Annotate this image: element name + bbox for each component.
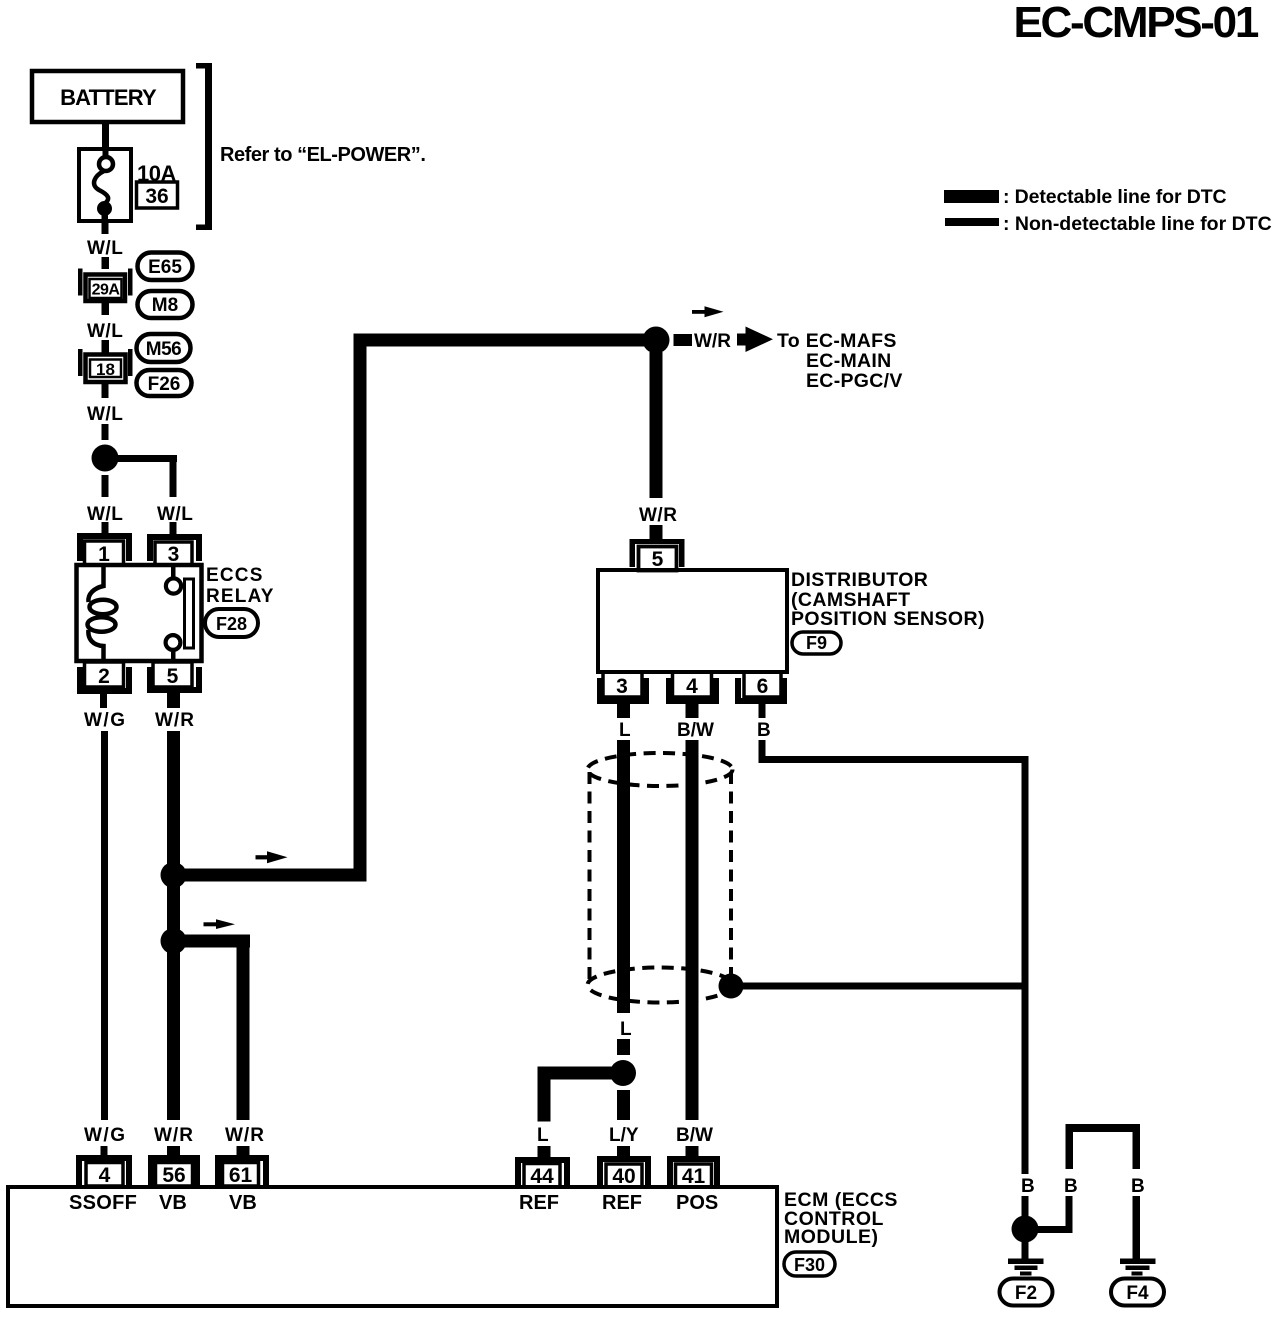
svg-text:: Non-detectable line for DTC: : Non-detectable line for DTC xyxy=(1003,213,1272,235)
svg-text:E65: E65 xyxy=(148,257,182,278)
wire B middle leg to ground junction xyxy=(1036,1196,1073,1233)
wire label B/W xyxy=(677,720,714,741)
wire L distributor pin 3 stub xyxy=(617,704,630,718)
svg-text:29A: 29A xyxy=(92,282,121,299)
svg-text:M8: M8 xyxy=(152,295,178,316)
wire label B right xyxy=(1131,1176,1145,1197)
svg-text:B/W: B/W xyxy=(676,1125,713,1146)
junction node at ground F2 xyxy=(1012,1216,1039,1243)
ECM pin 40 xyxy=(597,1156,651,1188)
svg-text:L: L xyxy=(620,1019,632,1040)
svg-text:18: 18 xyxy=(96,360,115,379)
distributor label xyxy=(791,569,985,630)
wire B bridge between grounds (inverted U) xyxy=(1066,1124,1141,1169)
wire label W/G bottom xyxy=(84,1125,127,1146)
wire label L below shield xyxy=(620,1019,632,1040)
relay pin 2 xyxy=(77,662,132,694)
wire W/L fuse to connector 29A xyxy=(102,222,110,269)
wire W/R junction down to distributor pin 5 xyxy=(650,352,663,498)
relay pin 1 xyxy=(77,533,132,566)
wire shield drain to B line xyxy=(731,983,1025,990)
wire label W/R bottom right xyxy=(225,1125,265,1146)
legend non-detectable line swatch xyxy=(945,218,999,226)
ECM pin name POS xyxy=(676,1192,718,1214)
svg-text:61: 61 xyxy=(229,1164,253,1187)
wire B right leg down to ground F4 xyxy=(1133,1196,1141,1259)
wire W/L connector 29A to connector 18 xyxy=(102,302,110,353)
svg-text:W/R: W/R xyxy=(154,1125,194,1146)
svg-text:6: 6 xyxy=(757,675,769,698)
shield around sensor wires (dashed cylinder) xyxy=(588,753,733,1003)
ECM pin 61 xyxy=(215,1155,269,1187)
svg-text:EC-PGC/V: EC-PGC/V xyxy=(806,370,903,392)
wire L dash above junction xyxy=(617,1039,630,1055)
junction node W/L split xyxy=(92,445,119,472)
distributor pin 5 xyxy=(630,539,685,571)
wire W/R riser up and across to distributor xyxy=(354,334,646,882)
relay pin 3 xyxy=(147,534,202,566)
svg-text:W/L: W/L xyxy=(157,504,193,525)
connector designator F26 xyxy=(137,370,192,396)
svg-text:EC-CMPS-01: EC-CMPS-01 xyxy=(1014,0,1259,47)
svg-text:5: 5 xyxy=(167,665,179,688)
wire label L/Y xyxy=(609,1125,639,1146)
note text refer to EL-POWER xyxy=(220,144,425,166)
svg-text:B: B xyxy=(1131,1176,1145,1197)
wire label W/R xyxy=(155,710,195,731)
connector designator M8 xyxy=(138,291,193,318)
svg-text:36: 36 xyxy=(145,185,168,208)
svg-text:W/L: W/L xyxy=(87,504,123,525)
wire label W/L right xyxy=(157,504,193,525)
relay coil xyxy=(88,565,117,661)
legend non-detectable text xyxy=(1003,213,1272,235)
wire label L above pin 44 xyxy=(537,1125,549,1146)
svg-text:RELAY: RELAY xyxy=(206,586,275,607)
svg-text:L: L xyxy=(619,720,631,741)
wire W/R stub right of junction xyxy=(674,334,693,346)
arrow marker small above W/R xyxy=(692,306,724,317)
connector designator E65 xyxy=(138,253,193,281)
wire label W/L left xyxy=(87,504,123,525)
svg-text:POSITION SENSOR): POSITION SENSOR) xyxy=(791,608,985,630)
ECM pin name REF xyxy=(602,1192,642,1214)
svg-text:F9: F9 xyxy=(806,633,827,653)
distributor camshaft position sensor body xyxy=(598,570,787,672)
ECM pin 44 xyxy=(515,1157,570,1188)
svg-text:L: L xyxy=(537,1125,549,1146)
ECM pin name SSOFF xyxy=(69,1192,137,1214)
ECM pin name VB xyxy=(159,1192,187,1214)
svg-text:M56: M56 xyxy=(146,339,181,360)
wire label B/W bottom xyxy=(676,1125,713,1146)
svg-text:: Detectable line for DTC: : Detectable line for DTC xyxy=(1003,186,1226,208)
wire B into ground junction xyxy=(1022,1196,1029,1217)
wire B pin 6 right and down xyxy=(759,740,1029,1174)
svg-text:56: 56 xyxy=(162,1164,185,1187)
wire W/R branch to ECM pin 61 xyxy=(180,935,250,1121)
connector 29A xyxy=(78,269,133,302)
svg-text:F26: F26 xyxy=(148,374,181,395)
ground symbol F2 xyxy=(1008,1241,1044,1276)
junction node L split to REF pins xyxy=(610,1060,636,1086)
battery xyxy=(32,71,183,122)
wire label W/L xyxy=(87,321,123,342)
connector 18 xyxy=(78,349,133,382)
arrow to EC-MAFS xyxy=(737,327,773,353)
bracket refer to EL-POWER xyxy=(196,63,212,230)
svg-text:2: 2 xyxy=(98,665,110,688)
svg-text:W/R: W/R xyxy=(225,1125,265,1146)
svg-text:44: 44 xyxy=(530,1165,554,1188)
svg-text:4: 4 xyxy=(99,1164,111,1187)
relay armature bar xyxy=(185,579,194,648)
ECM label xyxy=(784,1189,898,1248)
svg-text:40: 40 xyxy=(612,1165,635,1188)
wire stub into relay pin 3 xyxy=(170,522,177,535)
svg-text:REF: REF xyxy=(519,1192,559,1214)
relay U1 ECCS relay body xyxy=(77,565,202,661)
svg-text:W/R: W/R xyxy=(155,710,195,731)
relay designator F28 xyxy=(205,609,258,637)
svg-text:B: B xyxy=(757,720,771,741)
wire W/R branch junction to vertical riser xyxy=(180,869,362,882)
svg-text:B: B xyxy=(1064,1176,1078,1197)
wire L/Y junction down to ECM pin 40 xyxy=(617,1090,630,1120)
wire stub into ECM pin 4 xyxy=(101,1146,108,1157)
ground symbol F4 xyxy=(1120,1259,1156,1276)
wire label B below pin 6 xyxy=(757,720,771,741)
svg-text:W/L: W/L xyxy=(87,404,123,425)
svg-text:POS: POS xyxy=(676,1192,718,1214)
wire label B left xyxy=(1021,1176,1035,1197)
wire label B middle xyxy=(1064,1176,1078,1197)
svg-text:3: 3 xyxy=(616,675,628,698)
wire label L xyxy=(619,720,631,741)
wire B/W down to ECM pin 41 xyxy=(686,740,699,1120)
fuse number 36 xyxy=(137,182,178,208)
svg-text:W/L: W/L xyxy=(87,321,123,342)
svg-text:W/G: W/G xyxy=(84,1125,127,1146)
wire stub into ECM pin 40 xyxy=(617,1146,630,1157)
title EC-CMPS-01 xyxy=(1014,0,1259,47)
junction node shield drain to B xyxy=(719,974,744,999)
svg-text:To EC-MAFS: To EC-MAFS xyxy=(777,330,897,352)
fuse value 10A xyxy=(137,161,176,186)
wire L branch left to ECM pin 44 xyxy=(538,1067,624,1122)
svg-text:BATTERY: BATTERY xyxy=(60,85,157,110)
svg-text:1: 1 xyxy=(98,543,110,566)
relay pin 5 xyxy=(147,662,202,693)
svg-text:4: 4 xyxy=(686,675,698,698)
svg-text:Refer to “EL-POWER”.: Refer to “EL-POWER”. xyxy=(220,144,425,166)
wire W/R relay pin 5 stub xyxy=(167,693,180,708)
ECM pin 56 xyxy=(148,1155,200,1187)
wire label W/R above distributor xyxy=(639,505,677,526)
junction node W/R at top xyxy=(643,327,670,354)
wire label W/R bottom middle xyxy=(154,1125,194,1146)
ground designator F2 xyxy=(1000,1279,1053,1306)
wire W/G down to ECM pin 4 xyxy=(101,731,108,1120)
svg-text:W/G: W/G xyxy=(84,710,127,731)
wire label W/G xyxy=(84,710,127,731)
svg-text:SSOFF: SSOFF xyxy=(69,1192,137,1214)
ECM pin name REF xyxy=(519,1192,559,1214)
distributor pin 3 xyxy=(597,672,649,704)
arrow marker on W/R branch xyxy=(256,851,288,863)
wire W/L connector 18 to junction xyxy=(102,384,109,440)
svg-text:5: 5 xyxy=(652,548,664,571)
relay label ECCS RELAY xyxy=(206,565,275,607)
svg-text:MODULE): MODULE) xyxy=(784,1226,879,1248)
svg-text:F2: F2 xyxy=(1015,1283,1037,1304)
wire branch junction to relay pin 3 xyxy=(112,455,177,497)
legend detectable line swatch xyxy=(944,190,999,203)
svg-text:VB: VB xyxy=(229,1192,257,1214)
svg-text:VB: VB xyxy=(159,1192,187,1214)
wire L down through shield xyxy=(617,740,630,1013)
distributor pin 6 xyxy=(735,672,787,704)
wire stub into distributor pin 5 xyxy=(650,525,663,540)
wire junction to relay pin 1 xyxy=(102,475,109,497)
wire W/G relay pin 2 stub xyxy=(100,694,107,708)
wire stub into ECM pin 56 xyxy=(167,1146,180,1157)
svg-text:ECCS: ECCS xyxy=(206,565,264,586)
svg-text:DISTRIBUTOR: DISTRIBUTOR xyxy=(791,569,928,591)
wire stub into ECM pin 61 xyxy=(237,1146,250,1157)
wire B/W distributor pin 4 stub xyxy=(686,704,699,718)
svg-text:F28: F28 xyxy=(216,614,247,634)
arrow marker on pin 61 branch xyxy=(204,919,236,929)
wire stub into relay pin 1 xyxy=(102,522,109,535)
wire battery to fuse xyxy=(102,120,109,150)
svg-text:3: 3 xyxy=(168,543,180,566)
wire label W/L xyxy=(87,238,123,259)
svg-text:W/R: W/R xyxy=(639,505,677,526)
ECM designator F30 xyxy=(784,1252,835,1276)
wire stub into ECM pin 41 xyxy=(686,1146,699,1157)
ECM ECCS control module body xyxy=(8,1187,777,1306)
svg-text:EC-MAIN: EC-MAIN xyxy=(806,350,892,372)
ECM pin name VB xyxy=(229,1192,257,1214)
wire W/R relay pin 5 down to ECM pin 56 xyxy=(167,731,180,1120)
svg-text:F30: F30 xyxy=(794,1255,825,1275)
relay switch contacts xyxy=(166,565,181,661)
connector designator M56 xyxy=(137,334,191,362)
distributor pin 4 xyxy=(666,672,719,704)
wire B distributor pin 6 stub xyxy=(759,704,766,718)
legend detectable text xyxy=(1003,186,1226,208)
ECM pin 4 xyxy=(76,1155,132,1187)
fuse 10A xyxy=(79,149,131,233)
svg-text:F4: F4 xyxy=(1126,1283,1149,1304)
distributor designator F9 xyxy=(792,632,841,654)
wire label W/R top xyxy=(694,331,731,352)
svg-text:B: B xyxy=(1021,1176,1035,1197)
junction node W/R branch to EC-MAFS xyxy=(161,862,187,888)
svg-text:41: 41 xyxy=(682,1165,706,1188)
wire stub into ECM pin 44 xyxy=(538,1146,551,1157)
ECM pin 41 xyxy=(667,1156,720,1188)
ground designator F4 xyxy=(1111,1279,1164,1306)
svg-text:W/L: W/L xyxy=(87,238,123,259)
svg-text:B/W: B/W xyxy=(677,720,714,741)
svg-text:L/Y: L/Y xyxy=(609,1125,639,1146)
net label To EC-MAFS EC-MAIN EC-PGC/V xyxy=(777,330,903,392)
svg-text:W/R: W/R xyxy=(694,331,731,352)
wire label W/L xyxy=(87,404,123,425)
junction node W/R branch to ECM pin 61 xyxy=(161,928,187,954)
svg-text:REF: REF xyxy=(602,1192,642,1214)
